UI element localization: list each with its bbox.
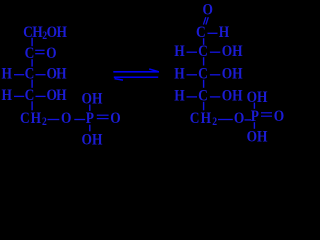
svg-text:CH2: CH2 (190, 110, 219, 128)
svg-text:H: H (174, 88, 185, 105)
bond C4-OH (left) (36, 96, 46, 97)
svg-text:OH: OH (247, 89, 268, 106)
bond H-C3 (left) (14, 74, 24, 75)
svg-text:H: H (2, 87, 13, 104)
equilibrium bottom harpoon shaft (114, 76, 158, 78)
bond H-C2 (right) (187, 52, 198, 53)
double bond P=O lower line (left) (97, 118, 109, 119)
double bond P=O lower line (right) (261, 116, 272, 117)
bond C2-C3 (right) (203, 57, 204, 65)
svg-text:OH: OH (222, 66, 243, 83)
svg-text:OH: OH (247, 128, 268, 145)
bond P-OH top (left) (89, 105, 90, 111)
bond C2-OH (right) (210, 52, 220, 53)
double bond C2=O lower line (left) (35, 53, 44, 54)
bond C5-O ester (right) (218, 119, 233, 120)
svg-text:O: O (274, 108, 284, 125)
bond C3-OH (left) (36, 74, 46, 75)
bond C1-C2 (left) (31, 38, 32, 46)
svg-text:OH: OH (81, 132, 102, 149)
svg-text:CH2OH: CH2OH (23, 24, 67, 42)
bond P-OH bottom (right) (254, 122, 255, 129)
svg-text:C: C (25, 87, 35, 104)
svg-text:O: O (46, 45, 56, 62)
svg-text:OH: OH (222, 88, 243, 105)
bond C3-C4 (left) (31, 80, 32, 88)
svg-text:O: O (202, 2, 212, 19)
svg-text:H: H (2, 66, 13, 83)
double bond P=O upper line (left) (97, 115, 109, 116)
double bond C1=O line 1 (right, slanted) (203, 17, 205, 24)
svg-text:H: H (174, 43, 185, 60)
equilibrium top harpoon barb (149, 69, 158, 72)
bond C4-OH (right) (210, 96, 220, 97)
double bond C2=O upper line (left) (35, 50, 44, 51)
svg-text:O: O (234, 110, 244, 127)
equilibrium top harpoon shaft (113, 71, 159, 73)
bond H-C3 (right) (187, 74, 198, 75)
bond C4-C5 (right) (203, 102, 204, 111)
svg-text:C: C (25, 45, 35, 62)
svg-text:O: O (110, 110, 120, 127)
bond O-P (right) (245, 119, 252, 120)
bond O-P (left) (74, 119, 85, 120)
equilibrium bottom harpoon barb (115, 79, 124, 81)
svg-text:H: H (219, 24, 230, 41)
bond C2-C3 (left) (31, 59, 32, 66)
svg-text:OH: OH (81, 90, 102, 107)
svg-text:H: H (174, 66, 185, 83)
svg-text:CH2: CH2 (20, 110, 48, 128)
bond P-OH top (right) (254, 103, 255, 109)
double bond C1=O line 2 (right, slanted) (206, 17, 208, 24)
bond C3-OH (right) (210, 74, 220, 75)
bond H-C4 (right) (187, 96, 198, 97)
svg-text:OH: OH (222, 43, 243, 60)
bond P-OH bottom (left) (89, 125, 90, 132)
bond C5-O ester (left) (48, 119, 60, 120)
bond C4-C5 (left) (31, 101, 32, 110)
svg-text:OH: OH (47, 87, 68, 104)
svg-text:C: C (25, 66, 35, 83)
bond H-C4 (left) (14, 96, 24, 97)
double bond P=O upper line (right) (261, 112, 272, 113)
svg-text:OH: OH (47, 66, 68, 83)
bond C3-C4 (right) (203, 80, 204, 88)
bond C1-H (right) (208, 33, 218, 34)
svg-text:O: O (61, 110, 71, 127)
bond C1-C2 (right) (203, 38, 204, 45)
